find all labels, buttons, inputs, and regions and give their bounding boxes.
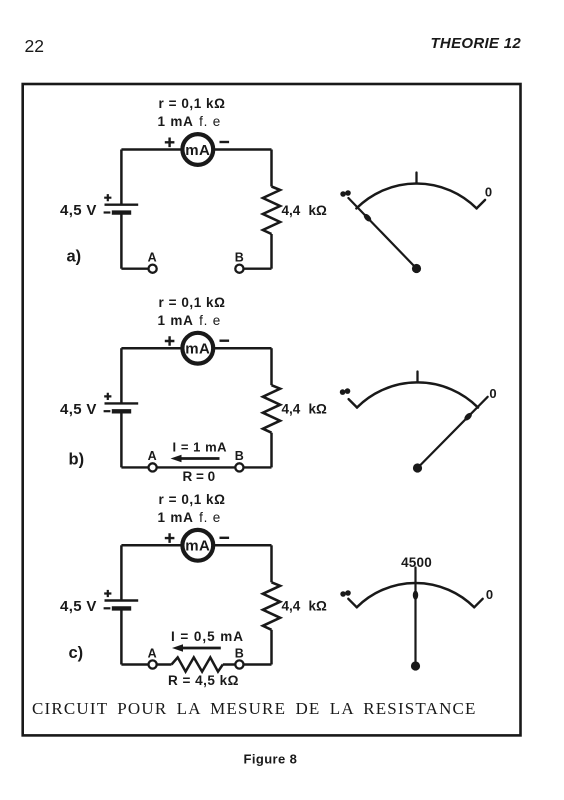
wire left branch lower, battery to bottom (circuit a)	[120, 213, 123, 269]
svg-text:4,4: 4,4	[282, 402, 301, 417]
wire top branch (circuit a)	[121, 148, 271, 151]
infinity mark (dial c)	[340, 590, 351, 597]
svg-text:A: A	[148, 251, 157, 265]
needle pivot dot (dial a)	[412, 264, 421, 273]
value label 4,4 kOhm (circuit a)	[282, 203, 328, 218]
wire right branch upper (circuit c)	[270, 545, 273, 582]
svg-text:1 mAf. e: 1 mAf. e	[158, 510, 222, 525]
resistor R 4,4 kOhm zigzag (circuit b)	[263, 385, 280, 433]
svg-text:4,5 V: 4,5 V	[60, 598, 97, 615]
svg-text:r = 0,1 kΩ: r = 0,1 kΩ	[159, 96, 226, 111]
meter scale arc (dial b)	[357, 382, 478, 407]
scale right end tick (dial c)	[474, 599, 483, 608]
wire right branch lower (circuit a)	[270, 234, 273, 269]
battery polarity + (circuit c)	[104, 590, 111, 597]
svg-text:B: B	[235, 449, 244, 463]
svg-text:4,4: 4,4	[282, 203, 301, 218]
wire bottom right from terminal B (circuit a)	[239, 268, 271, 270]
svg-text:0: 0	[489, 386, 496, 401]
needle (dial b)	[418, 397, 488, 468]
battery polarity - (circuit b)	[104, 410, 111, 412]
resistor R 4,4 kOhm zigzag (circuit c)	[263, 582, 280, 630]
svg-text:0: 0	[486, 587, 493, 602]
scale mid tick (dial b)	[416, 372, 418, 383]
wire left branch upper, battery top (circuit b)	[120, 348, 123, 403]
svg-text:mA: mA	[185, 142, 210, 159]
svg-text:mA: mA	[185, 538, 210, 555]
svg-text:b): b)	[69, 451, 85, 469]
battery polarity - (circuit c)	[104, 607, 111, 609]
meter polarity - (circuit b)	[220, 340, 230, 342]
meter scale arc (dial a)	[356, 184, 476, 209]
milliammeter mA (circuit c)	[182, 530, 213, 561]
wire bottom right from resistor to terminal B (circuit c)	[223, 663, 272, 665]
battery polarity + (circuit a)	[104, 194, 111, 201]
battery 4,5 V long plate (circuit c)	[105, 599, 139, 601]
value label 4,4 kOhm (circuit b)	[282, 402, 328, 417]
wire right branch lower (circuit c)	[270, 630, 273, 665]
svg-text:0: 0	[485, 185, 492, 200]
wire right branch upper (circuit b)	[270, 348, 273, 385]
meter polarity - (circuit c)	[220, 537, 230, 539]
battery polarity + (circuit b)	[104, 393, 111, 400]
svg-text:I = 0,5 mA: I = 0,5 mA	[171, 629, 244, 644]
battery 4,5 V short thick plate (circuit c)	[112, 606, 131, 610]
resistor R = 4,5 kOhm zigzag between A and B (circuit c)	[172, 657, 223, 671]
terminal A (circuit a)	[149, 265, 157, 273]
scale right end tick (dial a)	[477, 200, 486, 209]
svg-text:A: A	[148, 646, 157, 660]
svg-text:Figure 8: Figure 8	[244, 752, 298, 767]
svg-text:4,4: 4,4	[282, 599, 301, 614]
scale left end tick (dial b)	[349, 399, 357, 407]
meter polarity + (circuit b)	[165, 336, 175, 346]
svg-text:kΩ: kΩ	[309, 402, 328, 417]
wire left branch upper, battery top (circuit c)	[120, 545, 123, 600]
meter polarity + (circuit c)	[165, 533, 175, 543]
resistor R 4,4 kOhm zigzag (circuit a)	[263, 187, 280, 235]
needle pivot dot (dial b)	[413, 463, 422, 472]
svg-text:c): c)	[69, 644, 84, 662]
battery 4,5 V long plate (circuit a)	[105, 203, 139, 205]
svg-text:4,5 V: 4,5 V	[60, 202, 97, 219]
svg-text:I = 1 mA: I = 1 mA	[173, 439, 228, 454]
wire top branch (circuit c)	[121, 544, 271, 547]
infinity mark (dial a)	[340, 190, 351, 197]
terminal B (circuit c)	[235, 660, 243, 668]
needle (dial a)	[348, 198, 416, 269]
svg-text:4,5 V: 4,5 V	[60, 401, 97, 418]
battery 4,5 V long plate (circuit b)	[105, 402, 139, 404]
svg-text:A: A	[148, 449, 157, 463]
terminal A (circuit c)	[149, 660, 157, 668]
meter polarity - (circuit a)	[220, 141, 230, 143]
svg-text:R = 0: R = 0	[183, 469, 216, 484]
svg-text:a): a)	[67, 248, 82, 266]
wire bottom left to terminal A (circuit a)	[121, 268, 152, 270]
battery polarity - (circuit a)	[104, 211, 111, 213]
milliammeter mA (circuit a)	[182, 134, 213, 165]
svg-text:kΩ: kΩ	[309, 599, 328, 614]
svg-text:CIRCUIT POUR LA MESURE DE LA R: CIRCUIT POUR LA MESURE DE LA RESISTANCE	[32, 699, 477, 718]
battery 4,5 V short thick plate (circuit b)	[112, 409, 131, 413]
svg-text:r = 0,1 kΩ: r = 0,1 kΩ	[159, 295, 226, 310]
terminal B (circuit b)	[235, 463, 243, 471]
milliammeter mA (circuit b)	[182, 333, 213, 364]
needle pivot dot (dial c)	[411, 661, 420, 670]
needle bead (dial a)	[362, 213, 372, 223]
wire right branch lower (circuit b)	[270, 433, 273, 468]
infinity mark (dial b)	[340, 388, 351, 395]
current direction arrow (circuit c)	[172, 644, 221, 651]
wire left branch lower, battery to bottom (circuit c)	[120, 608, 123, 664]
svg-text:r = 0,1 kΩ: r = 0,1 kΩ	[159, 492, 226, 507]
svg-text:B: B	[235, 251, 244, 265]
svg-text:1 mAf. e: 1 mAf. e	[158, 114, 222, 129]
terminal A (circuit b)	[149, 463, 157, 471]
meter polarity + (circuit a)	[165, 138, 175, 148]
svg-text:R = 4,5 kΩ: R = 4,5 kΩ	[168, 673, 239, 688]
wire top branch (circuit b)	[121, 347, 271, 350]
svg-text:22: 22	[25, 36, 44, 56]
svg-text:mA: mA	[185, 341, 210, 358]
svg-text:B: B	[235, 646, 244, 660]
scale left end tick (dial c)	[348, 599, 357, 608]
svg-text:1 mAf. e: 1 mAf. e	[158, 313, 222, 328]
value label 4,4 kOhm (circuit c)	[282, 599, 328, 614]
needle (dial c)	[414, 568, 416, 667]
wire left branch upper, battery top (circuit a)	[120, 150, 123, 205]
wire bottom left to terminal A (circuit c)	[121, 663, 171, 665]
current direction arrow (circuit b)	[171, 455, 220, 462]
scale mid tick (dial a)	[415, 173, 417, 184]
wire left branch lower, battery to bottom (circuit b)	[120, 411, 123, 467]
needle bead (dial c)	[413, 591, 418, 600]
needle bead (dial b)	[463, 412, 473, 422]
svg-text:THEORIE 12: THEORIE 12	[430, 35, 521, 52]
figure frame	[23, 84, 521, 735]
wire right branch upper (circuit a)	[270, 150, 273, 187]
wire bottom branch A-B short, R = 0 (circuit b)	[121, 466, 271, 468]
terminal B (circuit a)	[235, 265, 243, 273]
battery 4,5 V short thick plate (circuit a)	[112, 210, 131, 214]
meter scale arc (dial c)	[357, 583, 474, 607]
svg-text:kΩ: kΩ	[309, 203, 328, 218]
